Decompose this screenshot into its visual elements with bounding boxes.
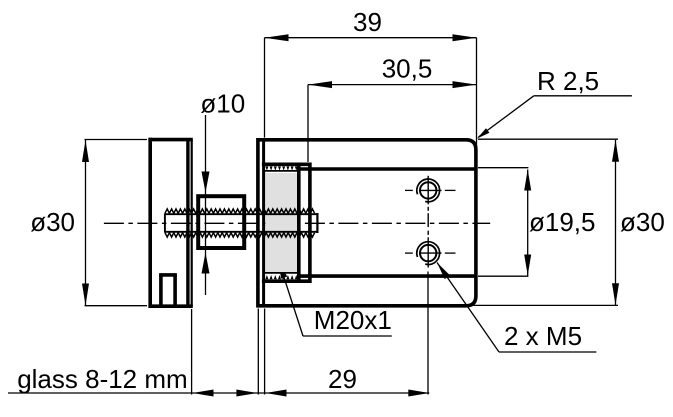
svg-text:ø10: ø10 bbox=[200, 89, 245, 119]
svg-text:ø30: ø30 bbox=[620, 207, 665, 237]
svg-text:29: 29 bbox=[328, 364, 357, 394]
svg-text:39: 39 bbox=[353, 7, 382, 37]
svg-text:R 2,5: R 2,5 bbox=[537, 66, 599, 96]
svg-text:ø19,5: ø19,5 bbox=[529, 207, 596, 237]
svg-text:30,5: 30,5 bbox=[382, 54, 433, 84]
svg-text:glass 8-12 mm: glass 8-12 mm bbox=[17, 364, 188, 394]
svg-text:M20x1: M20x1 bbox=[314, 305, 392, 335]
svg-text:ø30: ø30 bbox=[30, 207, 75, 237]
svg-text:2 x M5: 2 x M5 bbox=[504, 321, 582, 351]
